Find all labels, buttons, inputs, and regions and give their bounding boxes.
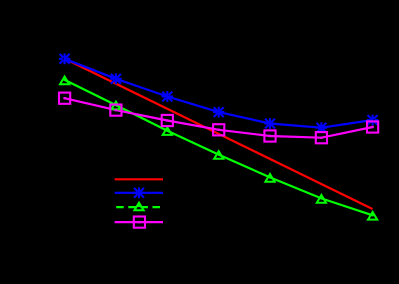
blue asterisk marker 1: [59, 53, 70, 64]
green triangle marker 4: [214, 151, 223, 159]
green triangle marker 3: [163, 127, 172, 135]
green triangle marker 6: [317, 195, 326, 203]
magenta series polyline: [65, 98, 373, 138]
green triangle marker 1: [60, 77, 69, 85]
blue asterisk marker 4: [213, 107, 224, 118]
green triangle marker 2: [111, 102, 120, 110]
red series line (straight fit line): [65, 59, 373, 209]
magenta square marker 3: [162, 115, 173, 126]
legend red sample line: [115, 178, 163, 180]
green triangle marker 5: [265, 174, 274, 182]
legend blue sample line: [115, 192, 163, 194]
legend magenta sample line: [115, 221, 163, 223]
blue asterisk marker 7: [367, 115, 378, 126]
magenta square marker 7: [367, 121, 378, 132]
magenta square marker 2: [110, 105, 121, 116]
green triangle marker 7: [368, 212, 377, 220]
magenta square marker 1: [59, 93, 70, 104]
blue asterisk marker 2: [110, 73, 121, 84]
legend green sample dashed line: [116, 206, 163, 208]
magenta square marker in legend: [134, 217, 145, 228]
blue asterisk marker 3: [162, 91, 173, 102]
blue asterisk marker 5: [264, 118, 275, 129]
blue asterisk marker in legend: [133, 187, 144, 198]
magenta square marker 6: [316, 132, 327, 143]
magenta square marker 4: [213, 124, 224, 135]
blue asterisk marker 6: [316, 122, 327, 133]
green triangle marker in legend: [134, 203, 143, 211]
blue series polyline: [65, 59, 373, 128]
green series polyline: [65, 80, 373, 215]
magenta square marker 5: [264, 130, 275, 141]
